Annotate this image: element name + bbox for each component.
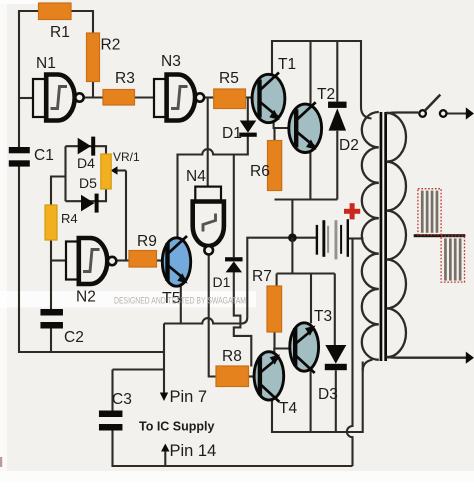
svg-text:VR/1: VR/1 <box>113 150 140 164</box>
svg-text:To IC Supply: To IC Supply <box>139 420 215 434</box>
svg-text:D3: D3 <box>318 386 338 403</box>
svg-text:T1: T1 <box>278 56 296 73</box>
svg-text:D5: D5 <box>79 175 97 191</box>
svg-text:R3: R3 <box>115 70 135 87</box>
svg-text:R4: R4 <box>61 211 78 226</box>
svg-text:Pin 7: Pin 7 <box>170 388 208 406</box>
svg-text:C2: C2 <box>64 329 84 346</box>
svg-text:DESIGNED AND TESTED BY SWAGATA: DESIGNED AND TESTED BY SWAGATAM <box>114 296 246 306</box>
svg-text:R8: R8 <box>222 348 242 365</box>
svg-text:R2: R2 <box>101 37 121 54</box>
svg-text:R7: R7 <box>252 268 272 285</box>
svg-text:T2: T2 <box>317 86 335 103</box>
svg-text:C3: C3 <box>112 391 132 408</box>
svg-text:N4: N4 <box>186 168 206 185</box>
svg-text:N1: N1 <box>36 55 56 72</box>
svg-text:R1: R1 <box>50 24 70 41</box>
svg-text:D4: D4 <box>77 155 95 171</box>
svg-text:R5: R5 <box>219 70 239 87</box>
svg-text:T4: T4 <box>279 400 297 417</box>
svg-text:R6: R6 <box>250 163 270 180</box>
svg-text:C1: C1 <box>34 147 54 164</box>
svg-text:D2: D2 <box>339 137 359 154</box>
svg-text:N3: N3 <box>161 53 181 70</box>
svg-text:D1: D1 <box>213 274 231 290</box>
svg-text:D1: D1 <box>222 125 242 142</box>
svg-text:T3: T3 <box>314 308 332 325</box>
svg-text:Pin 14: Pin 14 <box>170 442 217 460</box>
svg-text:N2: N2 <box>76 289 96 306</box>
svg-text:R9: R9 <box>137 233 157 250</box>
